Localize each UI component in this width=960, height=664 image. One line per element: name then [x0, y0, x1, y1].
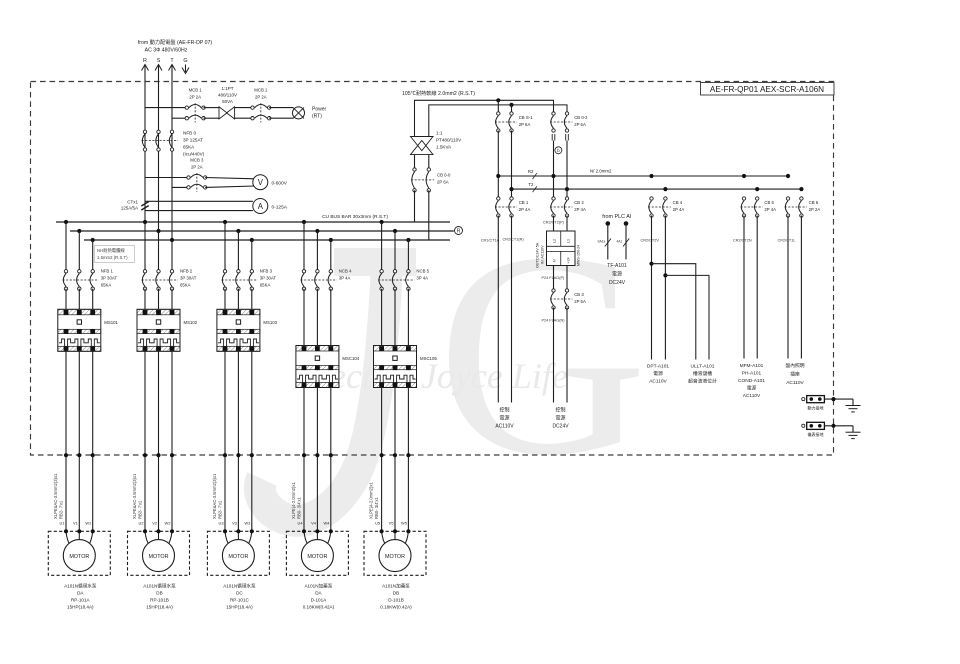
svg-text:CB 1: CB 1 — [519, 200, 529, 205]
svg-text:NFB 0: NFB 0 — [183, 131, 196, 136]
svg-text:15HP(18.4A): 15HP(18.4A) — [67, 605, 94, 610]
transformer 1:1 PT480/110V 1.5KVA — [411, 131, 463, 155]
node feeder 1 taps — [64, 220, 68, 224]
rail R2 — [498, 175, 788, 177]
cable label feeder 1 — [53, 473, 64, 519]
svg-text:65KA: 65KA — [180, 283, 191, 288]
contact 4A1 — [623, 239, 629, 247]
breaker NFB 0 — [142, 130, 178, 151]
svg-text:N: N — [553, 259, 557, 262]
cable label feeder 4 — [291, 482, 302, 519]
breaker MCB 1 (right) — [251, 87, 271, 122]
svg-text:NFB 3: NFB 3 — [260, 269, 273, 274]
svg-text:MOTOR: MOTOR — [69, 554, 89, 560]
svg-text:AC110V: AC110V — [786, 380, 804, 386]
svg-text:IN: AC110V: IN: AC110V — [541, 245, 545, 264]
contactor MS103 — [217, 309, 278, 351]
ground symbol power — [846, 406, 861, 412]
svg-text:MOTOR: MOTOR — [385, 554, 405, 560]
svg-text:from PLC AI: from PLC AI — [602, 214, 631, 220]
svg-text:RP-101A: RP-101A — [71, 598, 91, 603]
svg-text:50VA: 50VA — [222, 99, 233, 104]
node incoming S on bus — [156, 229, 160, 233]
panel border (dashed) — [31, 82, 834, 456]
svg-text:MCB 1: MCB 1 — [254, 87, 268, 92]
wire feeder 5 bus to breaker — [381, 222, 383, 271]
svg-text:CR2/CT1L: CR2/CT1L — [778, 239, 796, 243]
terminal block power ground — [802, 396, 825, 411]
motor M1 — [48, 529, 110, 575]
wire tap T to MCB 3 — [172, 186, 189, 188]
wire MCB1 to pilot lamp — [269, 107, 293, 109]
svg-text:動力接地: 動力接地 — [808, 404, 824, 410]
contactor MS101 — [58, 309, 119, 351]
svg-text:MOTOR: MOTOR — [307, 554, 327, 560]
voltmeter V 0-600V — [253, 175, 288, 190]
wire PSU to CB3 — [553, 266, 555, 291]
svg-text:DC24V: DC24V — [609, 280, 626, 286]
svg-text:DC: DC — [236, 591, 243, 596]
wire feeder 1 bus to breaker — [65, 222, 67, 271]
wire CB4 jog to ULLT right — [663, 273, 667, 277]
wire CB1 to control source — [497, 216, 499, 403]
node incoming T on bus — [170, 238, 174, 242]
ammeter A 0-125A — [253, 199, 288, 214]
svg-text:2P 6A: 2P 6A — [574, 299, 586, 304]
svg-text:CR2/CT1(R): CR2/CT1(R) — [503, 238, 525, 242]
svg-text:A101N加藥泵: A101N加藥泵 — [304, 583, 332, 590]
clip marks CB 0-2 — [552, 134, 568, 141]
svg-text:U5: U5 — [375, 521, 380, 526]
svg-text:2P 6A: 2P 6A — [437, 180, 449, 185]
motor M5 — [364, 529, 426, 575]
svg-text:電源: 電源 — [555, 415, 565, 422]
svg-text:A101N加藥泵: A101N加藥泵 — [382, 583, 410, 590]
svg-text:電源: 電源 — [499, 415, 509, 422]
svg-text:MSC105: MSC105 — [420, 356, 437, 361]
breaker NCB 5 — [378, 269, 429, 291]
svg-text:CB S-1: CB S-1 — [519, 115, 533, 120]
note NH cable — [95, 246, 135, 263]
wire instrument ground — [824, 425, 853, 427]
svg-text:MCB 3: MCB 3 — [190, 157, 204, 162]
contactor MS102 — [137, 309, 198, 351]
svg-text:AC110V: AC110V — [649, 379, 667, 385]
wire S incoming — [158, 65, 160, 232]
svg-text:MWS-150-24: MWS-150-24 — [577, 245, 581, 266]
contactor MSC105 — [374, 346, 438, 388]
svg-text:V5: V5 — [389, 521, 394, 526]
svg-text:W1: W1 — [85, 521, 91, 526]
svg-text:DB: DB — [156, 591, 162, 596]
svg-text:AE-FR-QP01 AEX-SCR-A106N: AE-FR-QP01 AEX-SCR-A106N — [710, 85, 824, 94]
svg-text:1.5mm2 (R.S.T): 1.5mm2 (R.S.T) — [97, 255, 128, 260]
node CB S-1 tap B — [509, 103, 513, 107]
svg-text:3P 30AT: 3P 30AT — [101, 276, 118, 281]
svg-text:+24: +24 — [567, 257, 571, 263]
svg-text:CR2/CT2N: CR2/CT2N — [733, 239, 752, 243]
node feeder 1 border crossings — [64, 453, 68, 457]
breaker NFB 1 — [63, 269, 118, 291]
breaker CB 3 — [550, 289, 586, 309]
svg-text:3P 30AT: 3P 30AT — [260, 276, 277, 281]
svg-text:2P 4A: 2P 4A — [673, 207, 685, 212]
svg-text:3P 4A: 3P 4A — [339, 276, 351, 281]
wire feeder 4 bus to breaker — [303, 222, 305, 271]
wire feeder 5 contactor to panel edge — [381, 388, 383, 532]
wire CB 0-0 to bus — [414, 190, 416, 222]
svg-text:RB2- 7'x1: RB2- 7'x1 — [218, 500, 223, 519]
power supply MWS-150-24 — [536, 231, 581, 268]
svg-text:A101N循環水泵: A101N循環水泵 — [64, 583, 97, 590]
svg-text:(Icu/440V): (Icu/440V) — [183, 152, 205, 157]
breaker CB 2 — [550, 197, 586, 217]
svg-text:U1: U1 — [60, 521, 65, 526]
svg-text:CB 5: CB 5 — [764, 200, 774, 205]
wire CB4 left down — [651, 216, 653, 360]
svg-text:AC110V: AC110V — [743, 393, 761, 399]
cable label feeder 2 — [132, 473, 143, 519]
node PLC left — [606, 221, 611, 226]
wire tap R to MCB 1 — [145, 107, 187, 109]
wire tap T to MCB 1 — [172, 117, 187, 119]
wire PT to CB 0-0 — [414, 155, 416, 170]
wire feeder 3 contactor to panel edge — [224, 351, 226, 531]
wire CB6 down — [787, 216, 789, 359]
breaker MCB 1 (left) — [185, 87, 205, 122]
svg-text:控制: 控制 — [499, 407, 509, 414]
svg-text:CB 0-0: CB 0-0 — [437, 173, 451, 178]
watermark J — [260, 262, 416, 521]
wire feeder 1 breaker to contactor — [65, 289, 67, 310]
ground symbol instrument — [846, 432, 861, 438]
wire control run A — [415, 100, 554, 136]
svg-text:電源: 電源 — [747, 385, 757, 392]
breaker CB 5 — [741, 197, 777, 217]
motor M2 — [128, 529, 190, 575]
svg-text:V2: V2 — [152, 521, 157, 526]
svg-text:U2: U2 — [139, 521, 144, 526]
cable label feeder 5 — [369, 482, 380, 519]
node feeder 5 border crossings — [380, 453, 384, 457]
svg-text:Power: Power — [312, 107, 327, 113]
wire feeder 4 contactor to panel edge — [303, 388, 305, 532]
svg-text:15HP(18.4A): 15HP(18.4A) — [226, 605, 253, 610]
title box AE-FR-QP01 AEX-SCR-A106N — [701, 83, 835, 96]
svg-text:XLPE&AC-3.5mm2(3)x1: XLPE&AC-3.5mm2(3)x1 — [132, 473, 137, 519]
svg-text:15HP(18.4A): 15HP(18.4A) — [146, 605, 173, 610]
svg-text:DB: DB — [393, 591, 399, 596]
svg-text:65KA: 65KA — [260, 283, 271, 288]
svg-text:480/110V: 480/110V — [218, 93, 237, 98]
svg-text:DPT-A101: DPT-A101 — [647, 364, 669, 370]
wire CB3 to control source DC — [553, 308, 555, 403]
svg-text:A101N循環水泵: A101N循環水泵 — [223, 583, 256, 590]
svg-text:RB2- 7'x1: RB2- 7'x1 — [59, 500, 64, 519]
svg-text:控制: 控制 — [555, 407, 565, 414]
wire feeder 3 bus to breaker — [224, 222, 226, 271]
wire MCB1 to PT — [204, 107, 220, 109]
bus bar T — [84, 239, 450, 241]
wire power ground — [824, 398, 853, 400]
wire CB S-1 down to rails — [497, 131, 499, 199]
wire feeder 5 breaker to contactor — [381, 289, 383, 346]
node feeder 3 taps — [223, 220, 227, 224]
svg-text:U4: U4 — [298, 521, 304, 526]
svg-text:NCB 5: NCB 5 — [416, 269, 429, 274]
svg-text:b: b — [557, 148, 560, 153]
svg-text:2P 6A: 2P 6A — [519, 122, 531, 127]
wire CB4 right down — [664, 216, 666, 360]
current transformer CTx1 125A/5A — [121, 200, 149, 211]
svg-text:插座: 插座 — [790, 371, 800, 378]
svg-text:RB0- 3/4'x1: RB0- 3/4'x1 — [374, 497, 379, 519]
svg-text:L1: L1 — [567, 239, 571, 243]
contactor MSC104 — [296, 346, 360, 388]
terminal block instrument ground — [802, 422, 825, 437]
svg-text:MS101: MS101 — [104, 320, 118, 325]
svg-text:AC 3Φ 480V/60Hz: AC 3Φ 480V/60Hz — [145, 48, 188, 54]
svg-text:V3: V3 — [232, 521, 237, 526]
svg-text:CB 2: CB 2 — [574, 200, 584, 205]
wire tap R to MCB 3 — [145, 177, 189, 179]
breaker NFB 2 — [142, 269, 197, 291]
svg-text:2P 2A: 2P 2A — [191, 164, 203, 169]
wire CB5 down — [743, 216, 745, 359]
svg-text:2P 2A: 2P 2A — [255, 94, 267, 99]
svg-text:XLPE(4-2.0mm2)x1: XLPE(4-2.0mm2)x1 — [291, 482, 296, 519]
svg-text:D-101A: D-101A — [311, 598, 328, 603]
node feeder 3 border crossings — [223, 453, 227, 457]
motor M4 — [286, 529, 348, 575]
svg-text:MOTOR: MOTOR — [149, 554, 169, 560]
breaker CB 6 — [785, 197, 821, 217]
node incoming R on bus — [143, 220, 147, 224]
ground lead G — [185, 65, 187, 73]
svg-text:2P 4A: 2P 4A — [519, 207, 531, 212]
svg-text:MCB 1: MCB 1 — [189, 87, 203, 92]
wire feeder 4 breaker to contactor — [303, 289, 305, 346]
svg-text:65KA: 65KA — [101, 283, 112, 288]
svg-text:0.18KW(0.42A): 0.18KW(0.42A) — [380, 605, 412, 610]
svg-text:DA: DA — [315, 591, 322, 596]
svg-text:W2: W2 — [165, 521, 171, 526]
svg-text:(RT): (RT) — [312, 114, 322, 120]
svg-text:DA: DA — [77, 591, 84, 596]
svg-text:A101N循環水泵: A101N循環水泵 — [143, 583, 176, 590]
svg-text:電源: 電源 — [653, 370, 663, 377]
svg-text:RP-101B: RP-101B — [150, 598, 169, 603]
motor M3 — [207, 529, 269, 575]
svg-text:超音波液位計: 超音波液位計 — [688, 378, 717, 385]
svg-text:S: S — [157, 58, 161, 64]
svg-text:D-101B: D-101B — [388, 598, 404, 603]
svg-text:CR2/CT2V: CR2/CT2V — [641, 239, 660, 243]
svg-text:CB 6: CB 6 — [809, 200, 819, 205]
svg-text:XLPE(4-2.0mm2)x1: XLPE(4-2.0mm2)x1 — [369, 482, 374, 519]
svg-text:1:1: 1:1 — [436, 131, 443, 136]
svg-text:MOTOR: MOTOR — [228, 554, 248, 560]
svg-text:盤內照明: 盤內照明 — [785, 362, 804, 369]
marker circle b — [555, 147, 562, 154]
svg-text:R2: R2 — [528, 169, 534, 174]
svg-text:0.18KW(0.42A): 0.18KW(0.42A) — [303, 605, 335, 610]
svg-text:3P 125AT: 3P 125AT — [183, 138, 203, 143]
svg-text:A: A — [258, 202, 264, 211]
svg-text:N/ 2.0mm2: N/ 2.0mm2 — [590, 169, 612, 174]
wire PT to MCB 1 right — [235, 107, 253, 109]
wire CB2 to power supply — [553, 216, 555, 232]
svg-text:3P 4A: 3P 4A — [416, 276, 428, 281]
svg-text:NFB 2: NFB 2 — [180, 269, 193, 274]
svg-text:1:1PT: 1:1PT — [221, 86, 233, 91]
svg-text:NH耐熱電纜線: NH耐熱電纜線 — [97, 247, 125, 254]
transformer PT 1:1PT 480/110V 50VA — [218, 86, 237, 119]
svg-text:DC24V: DC24V — [552, 424, 569, 430]
svg-text:G: G — [183, 58, 187, 64]
wire feeder 2 bus to breaker — [144, 222, 146, 271]
wire feeder 3 breaker to contactor — [224, 289, 226, 310]
breaker NCB 4 — [301, 269, 352, 291]
svg-text:電源: 電源 — [612, 271, 622, 278]
svg-text:CB 3: CB 3 — [574, 292, 584, 297]
svg-text:CR1/CT1A: CR1/CT1A — [481, 239, 500, 243]
breaker NFB 3 — [222, 269, 277, 291]
breaker CB 1 — [495, 197, 531, 217]
wire CB 0-2 down to rails — [553, 141, 555, 199]
breaker CB 0-0 — [411, 168, 451, 192]
svg-text:R: R — [457, 229, 461, 235]
node CB S-1 tap A — [496, 98, 500, 102]
wire control run B — [429, 105, 567, 137]
svg-text:2P 6A: 2P 6A — [574, 122, 586, 127]
wire feeder 2 breaker to contactor — [144, 289, 146, 310]
wire CB4 jog to ULLT left — [649, 262, 653, 266]
svg-text:槽液儲槽: 槽液儲槽 — [693, 370, 712, 377]
node feeder 4 taps — [302, 220, 306, 224]
svg-text:PT480/110V: PT480/110V — [436, 138, 462, 143]
svg-text:RP-101C: RP-101C — [230, 598, 250, 603]
breaker CB 4 — [648, 197, 684, 217]
svg-text:2P 2A: 2P 2A — [809, 207, 821, 212]
svg-text:1.5KVA: 1.5KVA — [436, 145, 452, 150]
wire feeder 2 contactor to panel edge — [144, 351, 146, 531]
svg-text:TF-A101: TF-A101 — [607, 263, 627, 269]
svg-text:2P 4A: 2P 4A — [574, 207, 586, 212]
svg-text:SA1a: SA1a — [598, 240, 606, 244]
svg-text:MS102: MS102 — [184, 320, 198, 325]
svg-text:MFM-A101: MFM-A101 — [740, 363, 764, 369]
svg-text:2P 4A: 2P 4A — [764, 207, 776, 212]
svg-text:125A/5A: 125A/5A — [121, 206, 138, 211]
node PLC right — [624, 221, 629, 226]
svg-text:RB2- 7'x1: RB2- 7'x1 — [138, 500, 143, 519]
rail T2 — [512, 188, 802, 190]
rail junction nodes — [496, 174, 500, 178]
svg-text:from 動力配電盤 (AE-FR-DP 07): from 動力配電盤 (AE-FR-DP 07) — [138, 38, 213, 46]
svg-text:COND-A101: COND-A101 — [738, 378, 765, 384]
wire R incoming — [144, 65, 146, 223]
svg-text:W3: W3 — [244, 521, 250, 526]
svg-text:PH-A101: PH-A101 — [742, 371, 762, 377]
wire T incoming — [171, 65, 173, 241]
node feeder 5 taps — [380, 220, 384, 224]
svg-text:V1: V1 — [73, 521, 78, 526]
svg-text:V: V — [258, 178, 264, 187]
svg-text:0-125A: 0-125A — [272, 204, 288, 210]
svg-text:MSC104: MSC104 — [342, 356, 359, 361]
svg-text:CB 0-2: CB 0-2 — [574, 115, 588, 120]
node feeder 2 border crossings — [143, 453, 147, 457]
svg-text:W5: W5 — [401, 521, 407, 526]
svg-text:NFB 1: NFB 1 — [101, 269, 114, 274]
svg-text:105℃耐熱軟線 2.0mm2 (R.S.T): 105℃耐熱軟線 2.0mm2 (R.S.T) — [402, 89, 475, 97]
svg-text:CU BUS BAR 30x3mm (R.S.T): CU BUS BAR 30x3mm (R.S.T) — [322, 214, 388, 220]
bus bar S — [70, 230, 454, 232]
node feeder 4 border crossings — [302, 453, 306, 457]
contact SA1a — [605, 239, 611, 247]
pilot lamp Power (RT) — [293, 107, 327, 120]
svg-text:L2: L2 — [553, 239, 557, 243]
svg-text:儀表接地: 儀表接地 — [808, 431, 824, 437]
svg-text:65KA: 65KA — [183, 145, 195, 150]
svg-text:4A1: 4A1 — [617, 240, 623, 244]
svg-text:U3: U3 — [219, 521, 224, 526]
svg-text:0-600V: 0-600V — [272, 181, 288, 187]
wire ammeter loop — [145, 200, 253, 202]
svg-text:W4: W4 — [323, 521, 330, 526]
cable label feeder 3 — [212, 473, 223, 519]
svg-text:V4: V4 — [311, 521, 317, 526]
bus bar R — [56, 221, 450, 223]
svg-text:AC110V: AC110V — [495, 424, 514, 430]
svg-text:NCB 4: NCB 4 — [339, 269, 352, 274]
breaker MCB 3 — [187, 157, 207, 191]
breaker CB 0-2 — [550, 112, 588, 132]
wire MCB3 to voltmeter — [205, 178, 254, 179]
svg-text:XLPE&AC-3.5mm2(3)x1: XLPE&AC-3.5mm2(3)x1 — [212, 473, 217, 519]
svg-text:R: R — [143, 58, 147, 64]
svg-text:2P 2A: 2P 2A — [189, 94, 201, 99]
svg-text:RB0- 3/4'x1: RB0- 3/4'x1 — [297, 497, 302, 519]
bus end marker circle R — [455, 227, 463, 235]
svg-text:ULLT-A101: ULLT-A101 — [691, 364, 715, 370]
breaker CB S-1 — [495, 112, 533, 132]
svg-text:OUT:DC24V 5A: OUT:DC24V 5A — [536, 242, 540, 268]
svg-text:3P 30AT: 3P 30AT — [180, 276, 197, 281]
svg-text:CTx1: CTx1 — [127, 200, 138, 205]
svg-text:XLPE&AC-3.5mm2(3)x1: XLPE&AC-3.5mm2(3)x1 — [53, 473, 58, 519]
svg-text:T2: T2 — [528, 182, 534, 187]
wire feeder 1 contactor to panel edge — [65, 351, 67, 531]
svg-text:CB 4: CB 4 — [673, 200, 683, 205]
svg-text:MS103: MS103 — [263, 320, 277, 325]
